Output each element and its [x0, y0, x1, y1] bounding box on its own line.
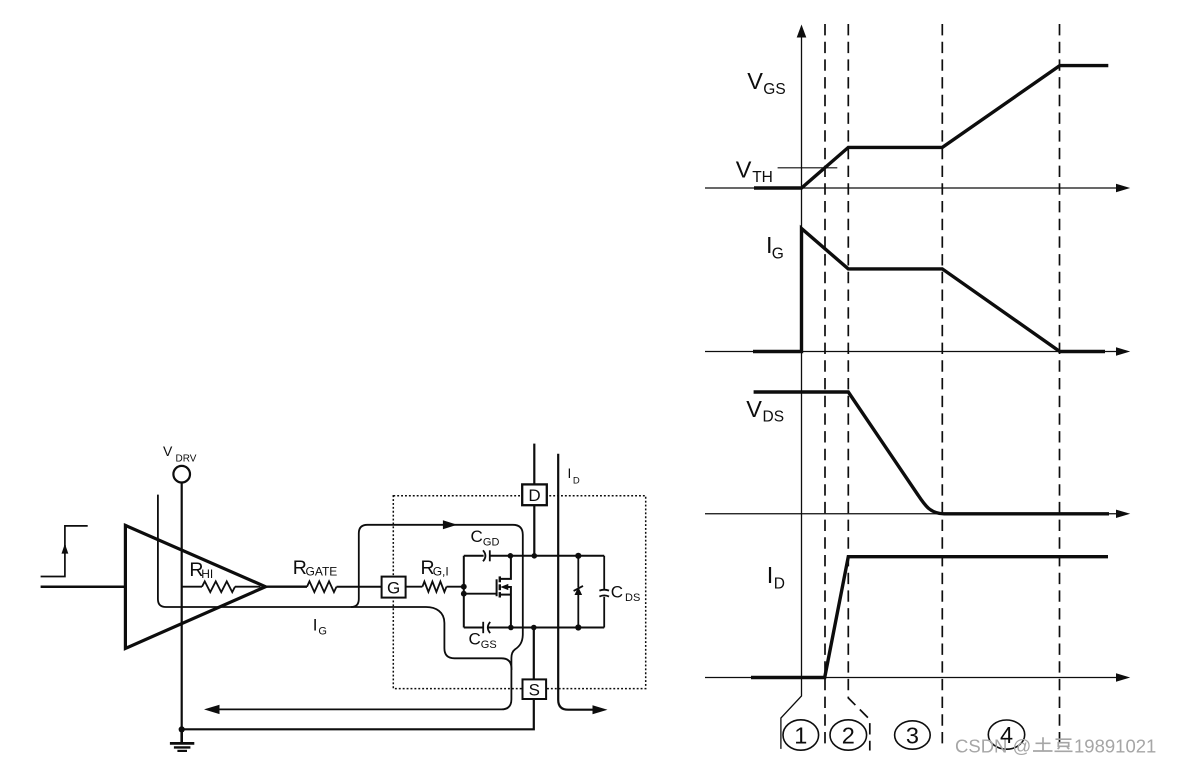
wire source terminal vertical and ground return	[182, 628, 534, 730]
svg-text:GD: GD	[483, 536, 500, 548]
arrowhead I_D exit	[593, 705, 608, 714]
V_GS waveform trace	[754, 66, 1108, 188]
dashed timing line 3	[941, 24, 943, 744]
transistor MOSFET symbol	[464, 556, 511, 628]
terminal box S	[523, 679, 547, 699]
label R_HI	[189, 559, 213, 581]
op-amp driver triangle	[125, 525, 265, 648]
svg-text:V: V	[747, 68, 763, 94]
arrowhead left on return wire	[204, 705, 220, 714]
capacitor C_GD	[483, 550, 490, 561]
label V_DRV	[163, 443, 197, 464]
label V_DS	[746, 396, 784, 426]
V_TH threshold line	[778, 167, 838, 169]
svg-text:CSDN @: CSDN @	[955, 736, 1031, 757]
svg-text:HI: HI	[201, 567, 213, 581]
step input signal	[41, 526, 88, 577]
svg-text:D: D	[573, 476, 580, 487]
dashed timing line 1	[824, 24, 826, 746]
resistor R_G,I	[406, 582, 464, 592]
svg-text:2: 2	[842, 722, 855, 748]
arrowhead right on top wire	[443, 520, 457, 529]
label V_TH	[736, 156, 773, 186]
I_G waveform trace	[753, 229, 1105, 352]
svg-text:C: C	[611, 582, 623, 601]
svg-text:C: C	[469, 629, 481, 648]
current path top wire with right arrow	[351, 525, 523, 670]
wire input to driver	[41, 585, 126, 588]
wire top (drain) rail with C_GD gap	[464, 555, 604, 557]
interval circle 4	[988, 720, 1024, 749]
wire I_D line with exit arrow	[558, 454, 593, 710]
node ground junction	[179, 726, 185, 732]
ground symbol	[170, 730, 194, 751]
svg-text:GATE: GATE	[306, 565, 338, 579]
svg-text:TH: TH	[752, 169, 773, 186]
label C_DS	[611, 582, 641, 604]
interval circle 3	[895, 721, 931, 749]
arrowhead axis V_DS	[1116, 510, 1130, 518]
terminal box D	[522, 484, 547, 505]
node dots	[461, 553, 582, 631]
svg-text:G,I: G,I	[433, 565, 449, 579]
dashed timing line 4	[1059, 24, 1061, 749]
svg-text:DS: DS	[763, 409, 785, 426]
label I_G	[766, 232, 784, 263]
interval circle 1	[783, 720, 819, 750]
arrowhead axis top	[797, 25, 807, 38]
svg-text:V: V	[736, 156, 752, 182]
svg-text:DS: DS	[625, 592, 640, 604]
V_DS waveform trace	[754, 392, 1109, 514]
dashed timing line 2	[848, 24, 870, 751]
wire cap network left vertical	[463, 556, 465, 628]
I_D waveform trace	[751, 557, 1108, 678]
svg-text:1: 1	[794, 722, 807, 748]
axis V_GS	[705, 187, 1117, 189]
label I_D	[767, 562, 785, 593]
label R_GATE	[293, 557, 338, 579]
svg-text:DRV: DRV	[176, 454, 197, 465]
label V_GS	[747, 68, 785, 98]
dashed box MOSFET outline	[393, 496, 645, 689]
terminal box G	[382, 577, 406, 598]
label I_D terminal	[568, 466, 580, 487]
waveform vertical axis	[781, 37, 802, 749]
svg-text:I: I	[313, 616, 318, 635]
arrowhead axis I_D	[1116, 673, 1130, 681]
svg-text:V: V	[163, 443, 173, 459]
svg-text:D: D	[774, 576, 785, 593]
svg-text:G: G	[318, 625, 327, 637]
svg-text:C: C	[471, 527, 483, 546]
arrowhead axis V_GS	[1116, 184, 1130, 192]
svg-text:I: I	[767, 562, 774, 588]
svg-text:19891021: 19891021	[1074, 736, 1156, 757]
arrowhead axis I_G	[1116, 347, 1130, 355]
watermark CSDN	[955, 736, 1156, 757]
resistor R_HI	[182, 581, 261, 592]
svg-text:G: G	[772, 246, 784, 263]
wire drain terminal vertical	[533, 444, 535, 556]
wire bottom (source) rail with C_GS gap	[464, 627, 604, 629]
label I_G	[313, 616, 327, 638]
svg-text:S: S	[529, 681, 540, 700]
resistor R_GATE	[307, 581, 337, 592]
svg-text:D: D	[528, 486, 540, 505]
label R_G,I	[421, 557, 449, 579]
svg-text:I: I	[568, 466, 572, 481]
svg-text:GS: GS	[763, 81, 785, 98]
capacitor C_DS	[599, 556, 609, 628]
svg-text:G: G	[387, 578, 400, 597]
axis I_D	[705, 677, 1117, 679]
axis V_DS	[705, 513, 1117, 515]
svg-text:3: 3	[906, 722, 919, 748]
terminal V_DRV circle	[173, 466, 190, 483]
current path I_G return wire (lower loop with left arrow)	[158, 495, 512, 710]
wire driver output to G box	[266, 586, 382, 588]
diode body (zener)	[574, 556, 583, 628]
label C_GD	[471, 527, 500, 549]
capacitor C_GS	[483, 622, 490, 633]
wire V_DRV vertical to ground	[181, 483, 183, 730]
interval circle 2	[830, 720, 867, 750]
axis I_G	[705, 351, 1117, 353]
label C_GS	[469, 629, 497, 651]
svg-text:V: V	[746, 396, 762, 422]
svg-text:GS: GS	[481, 639, 497, 651]
